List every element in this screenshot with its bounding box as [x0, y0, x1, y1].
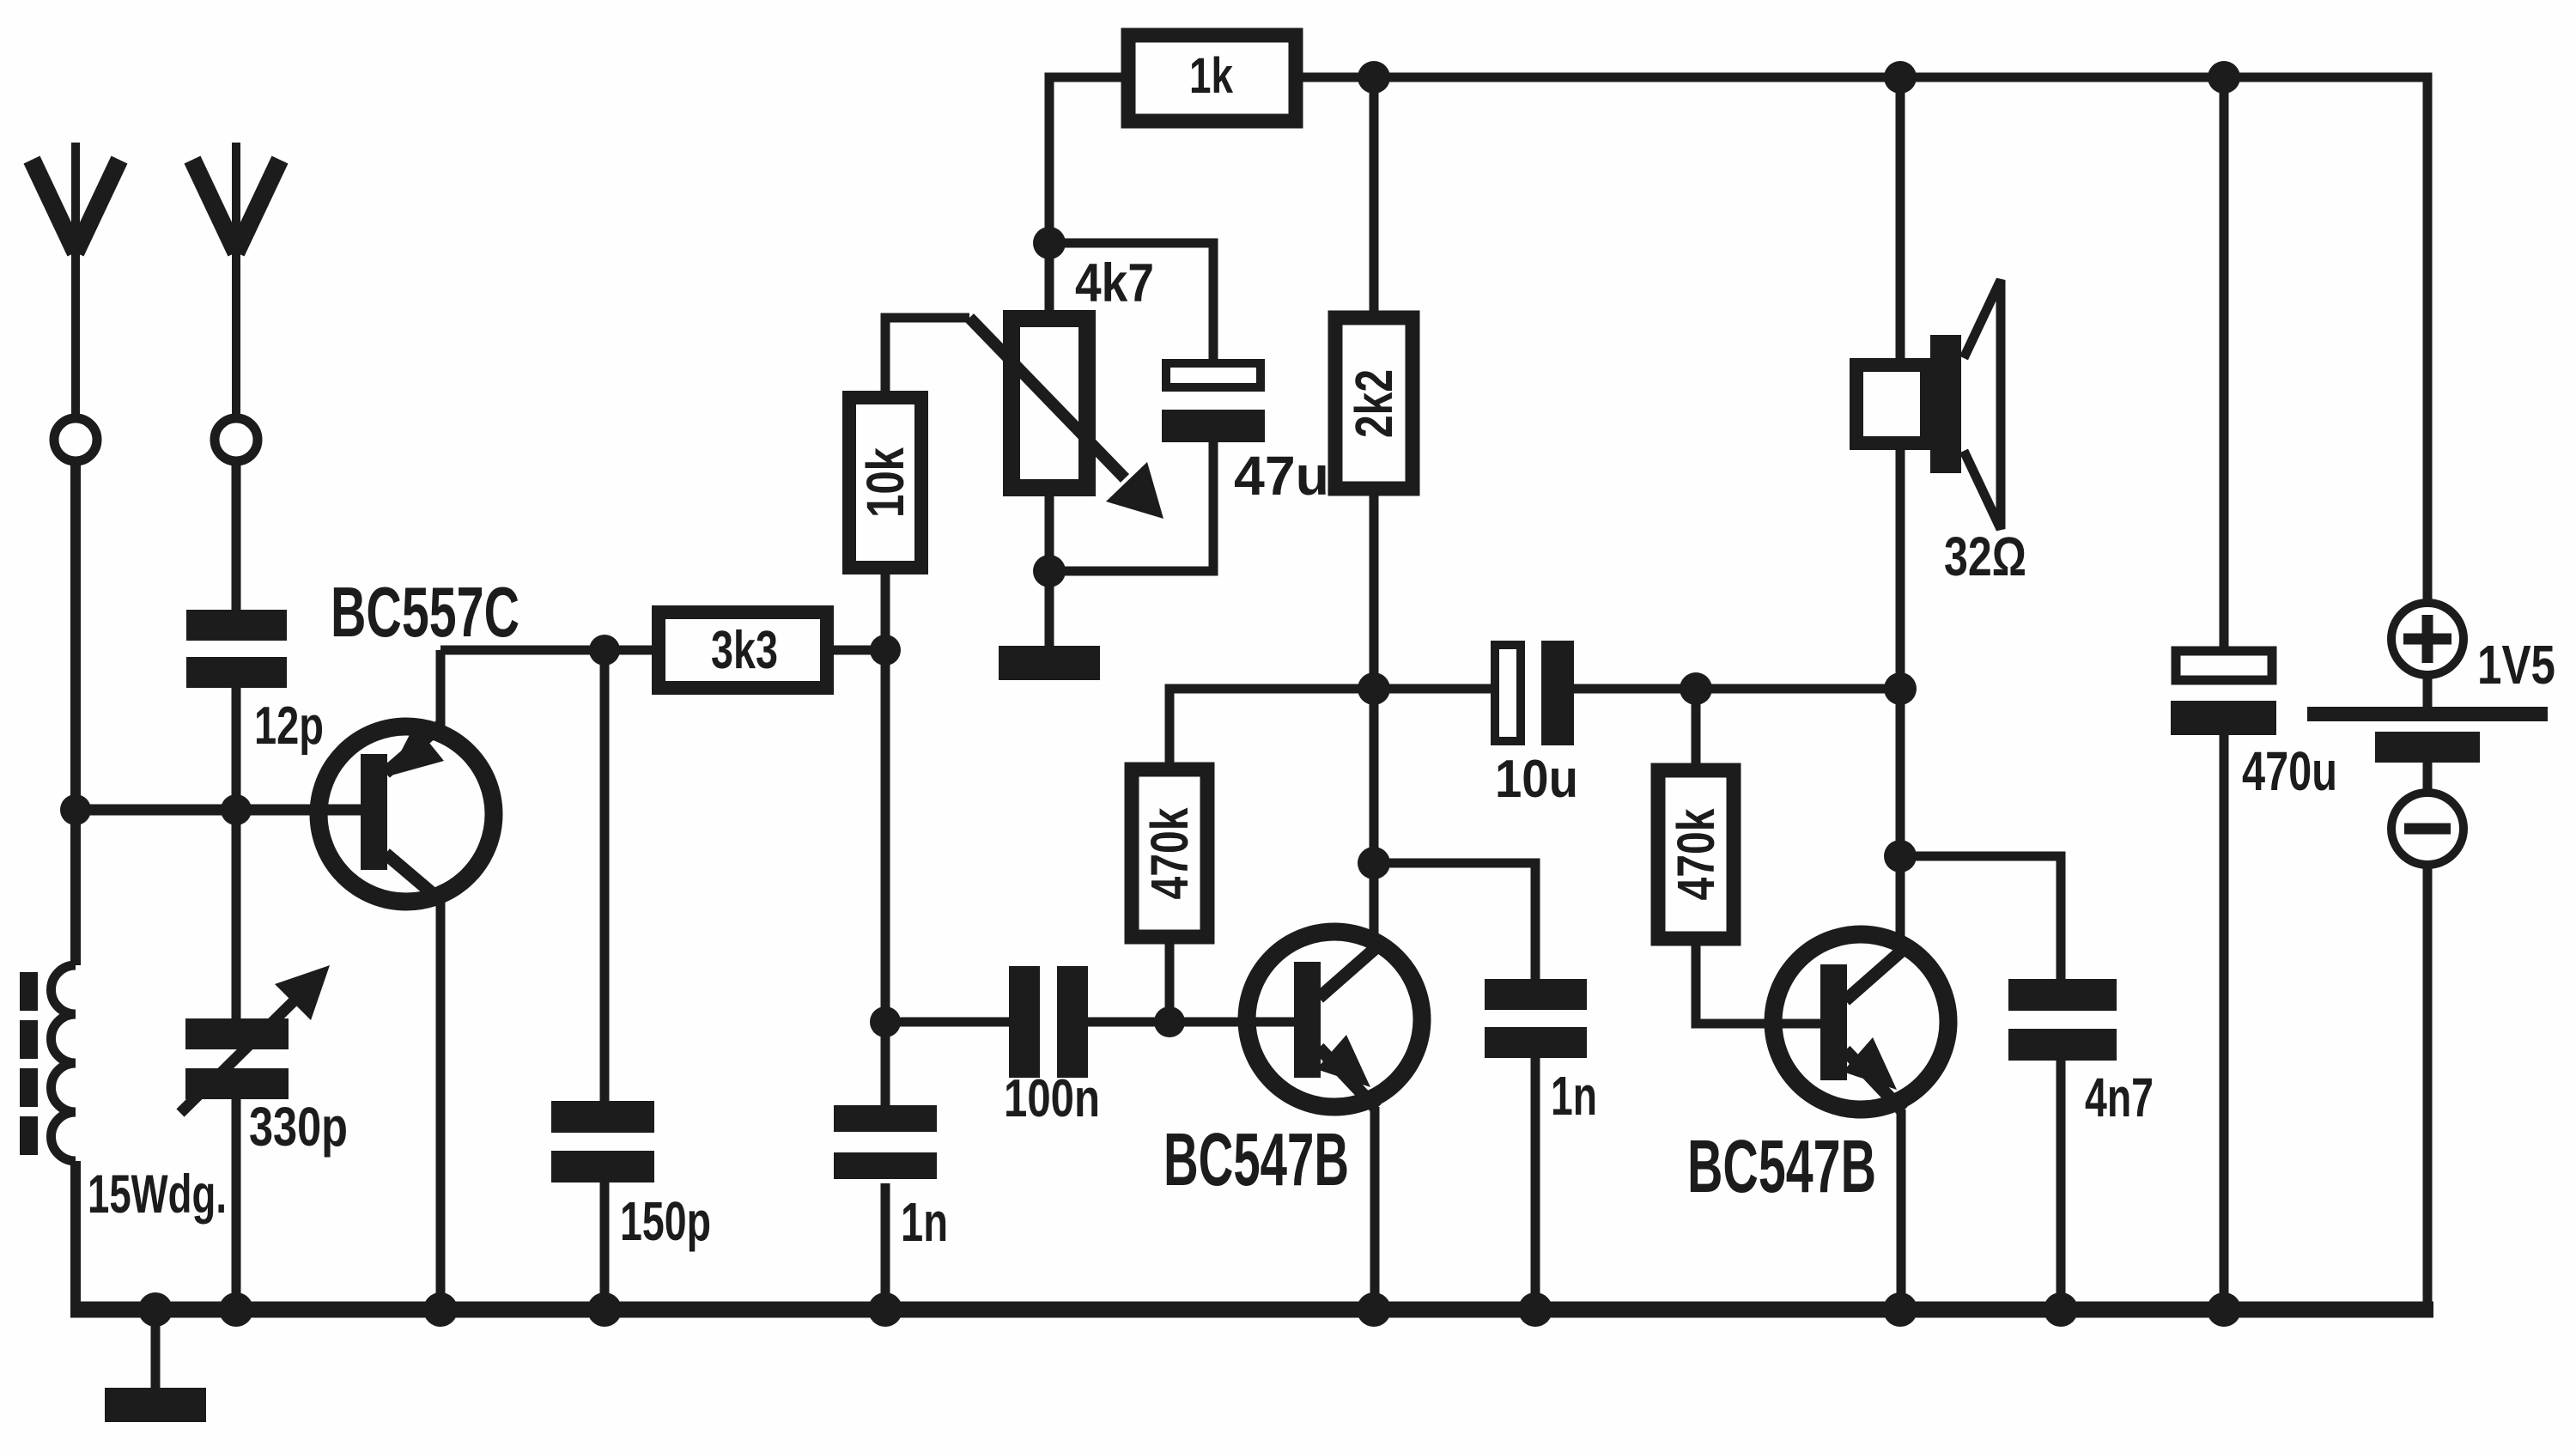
wire Q2 collector up [1370, 863, 1379, 948]
capacitor C10 470u electrolytic [2176, 651, 2272, 680]
capacitor C7 100n [1009, 966, 1088, 1078]
wire emitter row to 3k3 [440, 646, 657, 655]
ground symbol [151, 1310, 161, 1389]
svg-text:100n: 100n [1004, 1069, 1100, 1128]
wire Q1 collector down to rail [436, 900, 446, 1315]
wire base row Q1 [76, 805, 364, 816]
svg-text:1n: 1n [901, 1191, 948, 1253]
svg-text:470k: 470k [1667, 808, 1725, 900]
transistor Q1 BC557C [319, 726, 494, 902]
Q1 emitter arrow (PNP, pointing into base) [388, 725, 444, 776]
transistor Q3 BC547B [1773, 934, 1948, 1110]
node rail 1n C6 [1518, 1292, 1552, 1327]
wire R5 bottom lead [1165, 937, 1175, 1022]
wire 10k bottom [881, 568, 890, 650]
inductor L1 15Wdg. [52, 965, 76, 1161]
wire R6 bottom to Q3 base [1696, 939, 1824, 1024]
node Q2 collector / 1n C6 [1358, 847, 1390, 879]
resistor R1 1k [1128, 35, 1296, 121]
wire 3k3 right [834, 646, 885, 655]
Q2 emitter arrow (NPN, pointing out) [1316, 1035, 1370, 1087]
wire 10u row left [1374, 684, 1495, 694]
node rail/2k2 [1358, 61, 1390, 94]
resistor R3 10k [849, 398, 921, 568]
battery BT1 plates [2423, 675, 2433, 707]
wire 150p to rail [600, 1182, 610, 1315]
svg-text:3k3: 3k3 [711, 621, 778, 680]
wire node to 470k R5 [1170, 689, 1374, 764]
wire 470u top lead [2220, 77, 2229, 648]
wire speaker to 10u row [1896, 450, 1905, 689]
node rail 1n C5 [868, 1292, 902, 1327]
wire P1 bottom lead [1045, 488, 1054, 571]
svg-text:4k7: 4k7 [1075, 253, 1154, 313]
wire base row Q2 left [885, 1018, 1013, 1027]
svg-text:10k: 10k [856, 447, 914, 518]
capacitor C5 1n [834, 1105, 937, 1179]
capacitor C6 1n [1485, 979, 1587, 1058]
svg-text:2k2: 2k2 [1345, 369, 1403, 438]
wire antenna1 down [70, 461, 81, 965]
capacitor C9 4n7 [2008, 979, 2117, 1061]
svg-text:1n: 1n [1551, 1065, 1597, 1127]
wire Q1 emitter up [436, 650, 446, 726]
node rail 4n7 [2044, 1292, 2078, 1327]
wire C6 to rail [1531, 1058, 1540, 1315]
svg-text:BC547B: BC547B [1687, 1125, 1876, 1208]
capacitor C8 10u electrolytic [1495, 645, 1521, 741]
wire antenna2 column to C3 330p [232, 810, 241, 1020]
wire top rail [1296, 77, 2427, 601]
P1 wiper arrow [969, 318, 1125, 478]
svg-text:1V5: 1V5 [2477, 634, 2555, 696]
Q3 emitter arrow (NPN, pointing out) [1843, 1037, 1897, 1090]
potentiometer P1 4k7 [1012, 319, 1087, 488]
node rail 470u [2207, 1292, 2241, 1327]
speaker LS1 32ohm [1856, 365, 1927, 443]
terminal circle ANT1 [54, 418, 97, 461]
node rail Q1 collector [423, 1292, 458, 1327]
node speaker / 10u row [1884, 672, 1917, 705]
wire 10k top to wiper [885, 318, 969, 398]
wire 470u to rail [2220, 735, 2229, 1315]
node P1 bottom / 47u bottom [1033, 555, 1066, 587]
wire 1n C6 top lead [1374, 863, 1535, 981]
wire inductor to rail [70, 1161, 81, 1315]
svg-text:15Wdg.: 15Wdg. [88, 1164, 227, 1225]
node 2k2 / 10u / 470k [1358, 672, 1390, 705]
wire 10k column down [881, 650, 890, 1022]
wire bottom rail [70, 1302, 2433, 1318]
node rail ground [138, 1292, 173, 1327]
terminal circle ANT2 [215, 418, 258, 461]
wire 1k left lead [1049, 77, 1121, 243]
capacitor C2 47u electrolytic [1166, 363, 1261, 387]
node 470k R6 top [1680, 672, 1712, 705]
wire C1 to base row [232, 688, 241, 814]
wire speaker column to Q3 collector [1896, 689, 1905, 951]
svg-text:10u: 10u [1495, 750, 1578, 809]
svg-text:470u: 470u [2242, 740, 2337, 802]
wire base row Q2 right [1088, 1018, 1298, 1027]
node emitter/150p [589, 635, 620, 666]
svg-text:150p: 150p [620, 1190, 711, 1252]
wire Q2 emitter down [1370, 1107, 1380, 1315]
wire C5 to rail [881, 1183, 890, 1315]
wire Q2 collector node up [1370, 689, 1379, 863]
svg-text:4n7: 4n7 [2085, 1067, 2154, 1128]
svg-text:12p: 12p [254, 696, 324, 756]
node rail Q3 emitter [1883, 1292, 1917, 1327]
variable capacitor C3 330p [185, 1018, 289, 1099]
resistor R5 470k [1132, 769, 1207, 937]
svg-text:47u: 47u [1234, 445, 1329, 507]
node Q3 collector / 4n7 [1884, 840, 1917, 872]
wire 150p top lead [600, 650, 610, 1103]
capacitor C4 150p [551, 1101, 654, 1182]
capacitor C1 12p [186, 610, 287, 688]
wire 4n7 to rail [2057, 1060, 2066, 1315]
wire 4n7 top lead [1900, 856, 2061, 981]
node base-antenna2 [221, 794, 252, 825]
ground under P1 [999, 646, 1100, 680]
node rail/470u [2208, 61, 2240, 94]
node 10k column / base row [870, 1006, 901, 1037]
wire 47u top lead [1049, 243, 1213, 361]
battery BT1 plus terminal [2391, 603, 2464, 675]
wire 10u row right [1574, 684, 1900, 694]
transistor Q2 BC547B [1247, 932, 1422, 1107]
wire antenna2 to C1 [232, 461, 241, 611]
wire 2k2 top lead [1370, 77, 1379, 314]
wire battery minus to rail [2423, 865, 2433, 1315]
node rail 150p [587, 1292, 622, 1327]
wire to ground under P1 [1045, 571, 1054, 649]
node base-antenna1 [60, 794, 91, 825]
wire 47u bottom lead [1049, 442, 1213, 571]
resistor R4 2k2 [1335, 318, 1413, 489]
wire C3 to rail [232, 1099, 241, 1315]
node R5 / base Q2 [1154, 1006, 1185, 1037]
resistor R6 470k [1658, 770, 1734, 939]
svg-text:32Ω: 32Ω [1944, 526, 2026, 587]
node 3k3/10k [870, 635, 901, 666]
svg-text:1k: 1k [1189, 48, 1234, 104]
svg-text:BC547B: BC547B [1163, 1118, 1349, 1201]
node rail 330p [219, 1292, 253, 1327]
svg-text:330p: 330p [249, 1096, 348, 1158]
node rail Q2 emitter [1357, 1292, 1391, 1327]
antenna ANT2 [192, 143, 280, 414]
battery BT1 minus terminal [2423, 763, 2433, 791]
antenna ANT1 [32, 143, 119, 414]
wire P1 top lead [1045, 243, 1054, 310]
node P1 top / 1k / 47u [1033, 227, 1066, 259]
inductor core dashes [20, 972, 38, 1155]
wire speaker column top [1896, 77, 1905, 362]
wire R6 top lead [1692, 689, 1701, 766]
wire 2k2 bottom lead [1370, 489, 1379, 689]
svg-text:470k: 470k [1140, 807, 1199, 899]
svg-text:BC557C: BC557C [331, 572, 519, 652]
wire Q3 emitter down [1897, 1110, 1906, 1315]
resistor R2 3k3 [659, 612, 827, 688]
wire 1n C5 top lead [881, 1022, 890, 1107]
node rail/speaker [1884, 61, 1917, 94]
